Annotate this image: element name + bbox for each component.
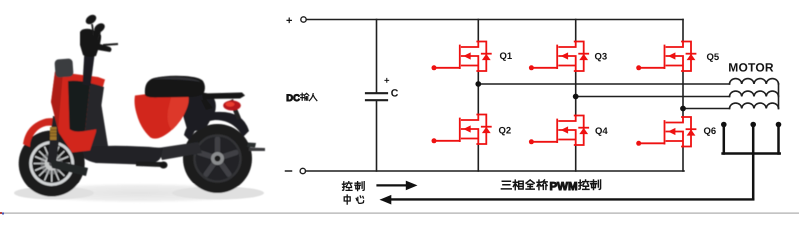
svg-text:Q5: Q5 bbox=[707, 52, 720, 63]
svg-text:Q4: Q4 bbox=[595, 126, 608, 137]
svg-text:Q1: Q1 bbox=[500, 51, 513, 62]
svg-text:MOTOR: MOTOR bbox=[728, 61, 774, 75]
svg-text:Q3: Q3 bbox=[595, 52, 608, 63]
svg-text:Q6: Q6 bbox=[704, 126, 717, 137]
svg-text:Q2: Q2 bbox=[499, 126, 512, 137]
svg-text:DC: DC bbox=[286, 93, 300, 104]
svg-text:PWM: PWM bbox=[550, 181, 578, 193]
svg-text:C: C bbox=[391, 88, 399, 100]
svg-text:+: + bbox=[286, 15, 292, 27]
svg-text:+: + bbox=[384, 76, 390, 87]
